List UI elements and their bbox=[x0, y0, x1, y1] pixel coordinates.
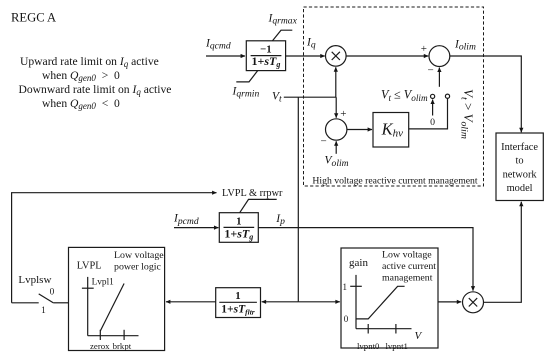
LVPL curve bbox=[100, 284, 124, 332]
svg-text:−: − bbox=[427, 64, 433, 76]
rate limiter symbol upper (Iqrmax) bbox=[273, 30, 293, 41]
svg-text:Ip: Ip bbox=[275, 213, 285, 227]
wire Khv output up to switch contact bbox=[409, 99, 448, 129]
svg-text:lvpnt0: lvpnt0 bbox=[357, 341, 380, 351]
rate limiter symbol lower (Iqrmin) bbox=[236, 71, 257, 82]
svg-text:active current: active current bbox=[382, 261, 436, 272]
tick 1 bbox=[350, 285, 362, 287]
svg-text:Volim: Volim bbox=[325, 155, 349, 169]
wire Vt down into summer S2 bbox=[335, 97, 337, 118]
svg-text:0: 0 bbox=[344, 314, 349, 324]
multiplier M1 bbox=[326, 46, 347, 67]
wire Ip to multiplier M2 bbox=[258, 228, 473, 291]
wire M1 to summer S1 bbox=[346, 55, 428, 57]
svg-text:Vt: Vt bbox=[272, 91, 282, 105]
svg-text:Khv: Khv bbox=[381, 120, 404, 140]
wire Volim into S2 bbox=[335, 141, 337, 154]
svg-text:1+sTfltr: 1+sTfltr bbox=[221, 303, 254, 316]
block U1: -1/(1+sTg) bbox=[246, 41, 285, 71]
wire Vt horizontal bbox=[284, 96, 336, 98]
svg-text:1: 1 bbox=[342, 282, 347, 292]
svg-text:Iqrmin: Iqrmin bbox=[232, 85, 260, 99]
LVAC graph y-axis bbox=[355, 275, 357, 329]
svg-text:management: management bbox=[382, 272, 433, 283]
wire rail to switch throw bbox=[12, 302, 39, 304]
svg-text:Vt ≤ Volim: Vt ≤ Volim bbox=[381, 88, 428, 103]
svg-text:Upward rate limit on Iq active: Upward rate limit on Iq active bbox=[20, 55, 159, 69]
svg-text:0: 0 bbox=[430, 117, 435, 128]
svg-text:Lvplsw: Lvplsw bbox=[18, 274, 51, 286]
box: Low voltage power logic bbox=[69, 247, 165, 350]
svg-text:lvpnt1: lvpnt1 bbox=[385, 341, 407, 351]
wire Ipcmd into block U2 bbox=[174, 227, 218, 229]
svg-text:Ipcmd: Ipcmd bbox=[173, 213, 199, 227]
svg-text:Iqcmd: Iqcmd bbox=[205, 37, 231, 51]
switch contact right (Khv input) bbox=[445, 94, 449, 98]
switch contact left (0 input) bbox=[431, 94, 435, 98]
LVAC graph x-axis bbox=[356, 328, 412, 330]
box: Low voltage active current management bbox=[341, 248, 438, 348]
svg-text:REGC A: REGC A bbox=[11, 10, 56, 24]
Lvpl1 tick bbox=[82, 287, 94, 289]
svg-text:High voltage reactive current: High voltage reactive current management bbox=[312, 176, 477, 187]
block: Interface to network model bbox=[496, 133, 543, 201]
svg-text:Iolim: Iolim bbox=[454, 38, 476, 52]
wire M2 output up to interface box bottom bbox=[484, 202, 522, 302]
svg-text:LVPL & rrpwr: LVPL & rrpwr bbox=[222, 188, 283, 199]
wire 0 into left contact bbox=[432, 100, 434, 116]
svg-text:Downward rate limit on Iq acti: Downward rate limit on Iq active bbox=[19, 83, 172, 97]
LVPL graph x-axis bbox=[88, 335, 139, 337]
svg-text:brkpt: brkpt bbox=[113, 341, 132, 351]
rate limiter symbol on U2 bbox=[240, 199, 277, 212]
switch blade Lvplsw bbox=[39, 294, 54, 303]
svg-text:Interface: Interface bbox=[501, 142, 538, 153]
wire U3 output into LVPL box bbox=[166, 301, 216, 303]
wire S1 output to interface box top bbox=[450, 56, 522, 132]
svg-text:Iq: Iq bbox=[306, 36, 316, 50]
svg-text:Low voltage: Low voltage bbox=[114, 250, 164, 261]
wire switch pole to LVPL box bbox=[53, 302, 68, 304]
block U3: 1/(1+sTfltr) bbox=[216, 288, 261, 318]
svg-text:to: to bbox=[516, 156, 524, 167]
svg-text:1: 1 bbox=[235, 290, 240, 302]
svg-text:−: − bbox=[320, 136, 326, 148]
svg-text:model: model bbox=[507, 183, 533, 194]
svg-text:Vt > Volim: Vt > Volim bbox=[458, 89, 476, 139]
svg-text:1: 1 bbox=[41, 306, 46, 316]
wire Vt up into M1 bbox=[335, 67, 337, 97]
svg-text:gain: gain bbox=[349, 257, 368, 269]
multiplier M2 bbox=[463, 292, 484, 313]
svg-text:+: + bbox=[340, 108, 346, 120]
brkpt tick bbox=[123, 330, 125, 340]
block U2: 1/(1+sTg) bbox=[219, 213, 258, 243]
summer S2 bbox=[326, 119, 347, 140]
lvpnt1 tick bbox=[395, 324, 397, 334]
summer S1 bbox=[429, 46, 450, 67]
svg-text:zerox: zerox bbox=[90, 341, 110, 351]
lvpnt0 tick bbox=[367, 324, 369, 334]
wire Iqcmd into block U1 bbox=[206, 55, 245, 57]
wire Vt branch down (node V) bbox=[297, 97, 299, 302]
LVPL graph y-axis bbox=[87, 277, 89, 336]
svg-text:Lvpl1: Lvpl1 bbox=[92, 278, 115, 288]
svg-text:LVPL: LVPL bbox=[77, 260, 102, 271]
svg-text:1+sTg: 1+sTg bbox=[251, 54, 280, 69]
dashed box: high voltage reactive current management bbox=[304, 7, 484, 186]
zerox tick bbox=[99, 330, 101, 340]
svg-text:0: 0 bbox=[50, 288, 55, 298]
wire left rail (switch to LVPL & rrpwr line) bbox=[12, 193, 217, 303]
wire switch pole into S1 bbox=[438, 68, 440, 87]
wire S2 to Khv bbox=[347, 129, 372, 131]
svg-text:Iqrmax: Iqrmax bbox=[268, 13, 298, 27]
svg-text:Low voltage: Low voltage bbox=[382, 249, 432, 260]
svg-text:power logic: power logic bbox=[114, 262, 162, 273]
wire V node into Tfltr block bbox=[262, 301, 299, 303]
block Khv bbox=[373, 113, 409, 148]
svg-text:1+sTg: 1+sTg bbox=[224, 226, 253, 241]
svg-text:when Qgen0 < 0: when Qgen0 < 0 bbox=[42, 97, 120, 111]
wire V node into LVAC box bbox=[298, 301, 340, 303]
svg-text:+: + bbox=[421, 43, 427, 55]
LVAC curve bbox=[356, 286, 405, 319]
wire U1 output Iq to multiplier M1 bbox=[286, 55, 325, 57]
svg-text:when Qgen0 > 0: when Qgen0 > 0 bbox=[42, 69, 120, 83]
wire LVAC output into M2 bbox=[438, 301, 461, 303]
svg-text:V: V bbox=[415, 330, 423, 342]
svg-text:network: network bbox=[503, 169, 538, 180]
